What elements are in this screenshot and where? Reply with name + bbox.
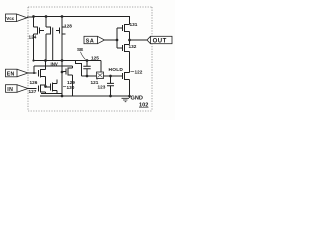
switch box 121 [91, 61, 104, 86]
svg-text:123: 123 [98, 85, 106, 90]
transistor 130 [46, 80, 58, 94]
svg-text:132: 132 [129, 44, 137, 49]
svg-text:GND: GND [131, 95, 143, 101]
label 130 with leader [63, 85, 75, 90]
node dot gnd x129.5 [128, 95, 131, 98]
wire from node A down-left to EN gate [34, 61, 46, 74]
node dot A x33.5 [32, 59, 34, 61]
inner flag (gate drive) [84, 36, 105, 44]
wire hold line y76 [82, 75, 123, 77]
IN input flag [6, 85, 29, 93]
wire hold node to ground rail [110, 76, 112, 96]
svg-text:122: 122 [135, 70, 143, 75]
wire gate column [117, 28, 123, 48]
wire node A horizontal [34, 60, 102, 62]
svg-text:125: 125 [91, 55, 99, 60]
Vcc input flag [6, 14, 28, 22]
svg-text:SE: SE [77, 47, 83, 52]
svg-text:102: 102 [139, 103, 148, 109]
transistor 132 [123, 40, 137, 73]
svg-text:INV: INV [51, 62, 58, 67]
svg-text:128: 128 [64, 23, 72, 28]
wire Vcc rail top [27, 17, 130, 25]
node dot output [128, 39, 131, 42]
node dot rail x33.5 [32, 15, 35, 18]
svg-text:EN: EN [7, 71, 15, 77]
EN input flag [6, 69, 29, 77]
svg-text:131: 131 [130, 22, 138, 27]
svg-text:127: 127 [29, 89, 37, 94]
node dot A x45.5 [44, 59, 47, 62]
node dot A x62 [61, 59, 64, 62]
ground rail [40, 95, 130, 97]
node dot 126/127 junction [44, 85, 47, 88]
node dot gnd x110.5 [109, 95, 112, 98]
svg-text:IN: IN [7, 87, 13, 93]
label SE with leader [77, 47, 86, 60]
node dot gnd x62 [61, 95, 64, 98]
svg-text:126: 126 [30, 80, 38, 85]
transistor 131 [123, 22, 138, 40]
transistor 128 [56, 17, 72, 61]
wire gate column x62 down [61, 61, 63, 97]
svg-text:130: 130 [67, 85, 75, 90]
capacitor 123 [98, 83, 115, 89]
svg-text:HOLD: HOLD [109, 67, 124, 73]
transistor 129 [62, 66, 75, 96]
wire output [130, 39, 148, 41]
node dot rail x62 [61, 15, 64, 18]
wire IN input [28, 88, 37, 90]
node dot hold x110.5 [109, 75, 112, 78]
wire source row y92 [41, 93, 62, 95]
dashed IC boundary box 102 [28, 7, 152, 111]
transistor 126 [30, 66, 46, 85]
label 102 [139, 103, 149, 109]
svg-text:Vcc: Vcc [6, 16, 15, 21]
svg-text:124: 124 [29, 35, 37, 40]
node dot hold x87 [86, 75, 89, 78]
transistor 122 [123, 70, 143, 97]
transistor (middle pull-up) [46, 17, 53, 61]
svg-text:OUT: OUT [153, 39, 167, 45]
node dot EN junction [33, 72, 35, 74]
svg-text:SA: SA [86, 38, 95, 44]
wire cross-net y66 [46, 65, 73, 67]
node dot x62 y72 [61, 71, 64, 74]
capacitor 125 [83, 55, 99, 76]
node dot A x87 [86, 59, 89, 62]
transistor 127 [29, 77, 46, 95]
node dot gate col [116, 39, 119, 42]
transistor 124 [29, 17, 45, 61]
OUT flag [147, 36, 172, 44]
wire EN input [28, 72, 37, 74]
wire staircase node A to hold line [76, 61, 82, 77]
wire flag to gates [105, 39, 118, 41]
node dot rail x46 [45, 15, 48, 18]
ground symbol [122, 96, 130, 102]
